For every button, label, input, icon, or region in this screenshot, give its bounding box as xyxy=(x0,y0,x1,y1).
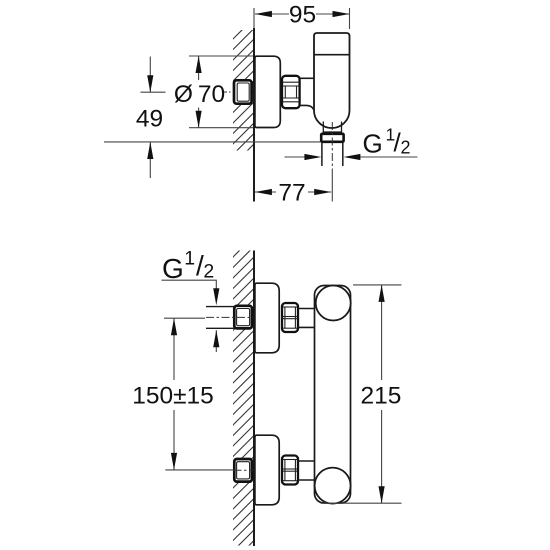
outlet centerline (top view) xyxy=(331,122,333,170)
outlet pipe lines (top view) xyxy=(322,142,343,166)
dim 150 upper tick xyxy=(164,317,205,319)
G 1/2 upper arrow (bottom view) xyxy=(213,288,219,305)
outlet centerline extension (77 dim) xyxy=(331,170,333,202)
svg-text:150±15: 150±15 xyxy=(132,382,214,409)
upper centerline dash-dot xyxy=(206,316,254,318)
upper pipe stub (bottom view) xyxy=(206,307,234,329)
escutcheon flange (top view) xyxy=(255,56,280,127)
upper hex nut (bottom view) xyxy=(282,303,298,332)
dim 95 arrows xyxy=(255,11,350,17)
dim 215 line xyxy=(381,285,383,503)
svg-text:G: G xyxy=(162,253,184,284)
dim 49 lower line xyxy=(104,141,321,143)
dim 150 lower tick xyxy=(165,469,233,471)
svg-text:2: 2 xyxy=(401,138,411,158)
lower centerline dash-dot xyxy=(234,469,254,471)
dim diameter 70 lines xyxy=(189,56,253,128)
upper nut facets xyxy=(283,307,298,328)
hex nut (top view) xyxy=(282,76,300,108)
svg-text:49: 49 xyxy=(136,105,163,132)
G 1/2 arrows (top view) xyxy=(304,154,360,160)
svg-text:1: 1 xyxy=(184,248,195,270)
G 1/2 leader (bottom view) xyxy=(162,280,217,291)
dim 77 lines xyxy=(255,191,331,193)
G 1/2 lower arrow (bottom view) xyxy=(215,330,217,352)
svg-text:G: G xyxy=(363,129,383,159)
lower supply square (bottom view) xyxy=(234,459,252,482)
svg-text:215: 215 xyxy=(361,382,402,409)
wall hatching (bottom view) xyxy=(228,226,254,550)
outlet nipple (top view) xyxy=(321,134,343,142)
body neck lines (top view) xyxy=(323,122,341,134)
dim 95 line xyxy=(255,8,350,29)
dim 49 upper tick xyxy=(141,91,166,93)
inlet centerline stub (top view) xyxy=(222,91,232,93)
dim 77 arrows xyxy=(255,189,331,195)
supply pipe square union (top view) xyxy=(234,80,252,103)
lower inner square xyxy=(237,462,250,479)
inner square (top view union) xyxy=(237,83,249,101)
upper supply square (bottom view) xyxy=(234,306,252,329)
upper inner square xyxy=(237,309,250,326)
dim 150 arrows xyxy=(171,318,177,470)
body bar (bottom view) xyxy=(315,286,351,504)
wall surface extension line (top, for 95 dim) xyxy=(253,8,255,28)
dim 215 extension lines xyxy=(321,285,402,503)
dim 49 lower arrow xyxy=(149,142,151,178)
G 1/2 label (bottom view) xyxy=(162,248,214,284)
wall hatching (top view) xyxy=(228,8,254,181)
svg-text:2: 2 xyxy=(203,261,214,283)
body cap line (top view) xyxy=(314,54,350,56)
dim diameter 70 arrows xyxy=(196,56,202,128)
lower hex nut (bottom view) xyxy=(282,456,298,485)
wall line (bottom view) xyxy=(253,251,255,547)
G 1/2 leader (top view) xyxy=(285,156,418,158)
main valve body (top view) xyxy=(314,33,350,128)
svg-text:77: 77 xyxy=(278,179,305,206)
dim 150 line xyxy=(173,318,175,470)
svg-text:95: 95 xyxy=(289,1,316,28)
dim 215 arrows xyxy=(379,285,385,503)
connector between nut and body (top view) xyxy=(300,78,315,109)
lower connector (bottom view) xyxy=(298,461,315,480)
svg-text:Ø 70: Ø 70 xyxy=(174,81,225,108)
top knob circle xyxy=(316,286,351,321)
lower nut facets xyxy=(283,460,298,481)
upper connector (bottom view) xyxy=(298,309,315,328)
bottom knob circle xyxy=(315,468,351,504)
lower escutcheon flange (bottom view) xyxy=(255,435,279,505)
wall line (top view) xyxy=(253,28,255,202)
nut facet lines (top view) xyxy=(283,82,299,102)
dome-neck line (top view) xyxy=(323,131,341,133)
upper escutcheon flange (bottom view) xyxy=(255,283,279,353)
dim 49 upper arrow xyxy=(149,57,151,93)
G 1/2 label (top view) xyxy=(363,125,411,159)
